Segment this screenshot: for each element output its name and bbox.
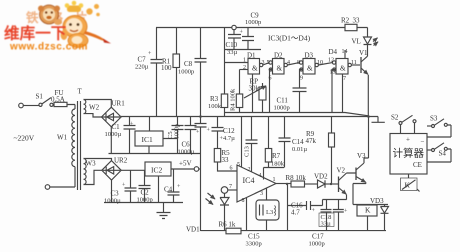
svg-text:220µ: 220µ	[135, 64, 149, 71]
svg-text:+: +	[177, 184, 181, 190]
svg-text:www.dzsc.com: www.dzsc.com	[9, 42, 88, 53]
svg-text:5: 5	[237, 162, 240, 168]
svg-text:&: &	[277, 65, 283, 73]
svg-text:+: +	[148, 51, 152, 57]
svg-text:IC3(D1～D4): IC3(D1～D4)	[268, 34, 311, 43]
svg-text:K: K	[365, 206, 371, 215]
svg-text:1: 1	[273, 177, 276, 183]
svg-text:C1: C1	[112, 123, 121, 131]
svg-text:4.7: 4.7	[291, 209, 300, 217]
svg-text:3300p: 3300p	[246, 241, 262, 248]
svg-text:1000p: 1000p	[309, 241, 325, 248]
svg-text:K: K	[405, 181, 411, 190]
svg-text:~220V: ~220V	[14, 134, 35, 143]
svg-text:+: +	[130, 122, 134, 128]
svg-text:C11: C11	[277, 97, 289, 105]
svg-text:+: +	[240, 30, 244, 36]
svg-text:1000p: 1000p	[274, 105, 290, 112]
svg-text:100: 100	[161, 64, 172, 72]
svg-text:C15: C15	[248, 233, 260, 241]
svg-text:1: 1	[243, 58, 246, 64]
svg-text:C5: C5	[167, 131, 174, 139]
svg-text:UR1: UR1	[112, 100, 126, 108]
svg-text:3: 3	[260, 191, 263, 197]
svg-text:+: +	[312, 208, 316, 214]
svg-text:D3: D3	[305, 52, 314, 60]
svg-text:4: 4	[259, 173, 262, 179]
svg-text:5: 5	[267, 60, 270, 66]
svg-text:S4: S4	[439, 150, 447, 158]
svg-text:7: 7	[229, 184, 232, 190]
svg-text:1000p: 1000p	[245, 19, 261, 26]
svg-text:VD3: VD3	[370, 197, 384, 205]
svg-text:V3: V3	[357, 152, 366, 160]
svg-text:30k: 30k	[249, 85, 260, 93]
svg-text:维库一下: 维库一下	[4, 24, 66, 43]
svg-text:D1: D1	[247, 52, 256, 60]
svg-text:&: &	[307, 65, 313, 73]
svg-text:D4: D4	[329, 48, 338, 56]
svg-text:4: 4	[287, 60, 290, 66]
svg-text:9: 9	[300, 76, 303, 82]
svg-text:7: 7	[343, 76, 346, 82]
svg-text:C2: C2	[141, 189, 150, 197]
svg-text:R6 1k: R6 1k	[219, 221, 236, 229]
svg-text:8: 8	[242, 198, 245, 204]
svg-text:UR2: UR2	[114, 157, 128, 165]
svg-text:计算器: 计算器	[393, 147, 425, 160]
svg-text:33µ: 33µ	[321, 221, 332, 228]
svg-text:C6: C6	[182, 141, 191, 149]
svg-text:2: 2	[243, 65, 246, 71]
svg-text:R3: R3	[210, 95, 219, 103]
svg-text:12: 12	[328, 58, 334, 64]
svg-text:IC1: IC1	[142, 135, 154, 144]
svg-text:3: 3	[262, 60, 265, 66]
svg-text:+: +	[207, 128, 211, 134]
svg-text:R2: R2	[341, 17, 350, 25]
svg-text:+: +	[196, 130, 200, 136]
svg-text:VD2: VD2	[314, 173, 328, 181]
svg-text:13: 13	[330, 70, 336, 76]
svg-text:1000µ: 1000µ	[104, 198, 121, 205]
svg-text:C13: C13	[244, 146, 251, 157]
svg-text:+: +	[344, 209, 348, 215]
svg-text:8: 8	[297, 60, 300, 66]
svg-text:C10: C10	[226, 41, 238, 49]
svg-text:14: 14	[342, 49, 348, 55]
svg-text:C3: C3	[111, 190, 120, 198]
svg-text:1000p: 1000p	[178, 69, 194, 76]
svg-text:6: 6	[230, 166, 233, 172]
svg-text:0.01µ: 0.01µ	[292, 146, 307, 153]
svg-text:&: &	[340, 65, 346, 73]
svg-text:33: 33	[222, 156, 230, 164]
svg-text:S3: S3	[430, 115, 438, 123]
svg-text:180k: 180k	[271, 161, 285, 168]
svg-text:S2: S2	[391, 114, 399, 122]
svg-text:R4 100k: R4 100k	[230, 88, 237, 111]
svg-text:IC4: IC4	[243, 176, 255, 185]
svg-text:R8 10k: R8 10k	[286, 174, 307, 182]
svg-text:V1: V1	[359, 49, 368, 57]
svg-text:W1: W1	[57, 134, 68, 142]
svg-text:47k: 47k	[306, 137, 317, 145]
svg-text:R7: R7	[272, 152, 281, 160]
svg-text:VL: VL	[352, 38, 361, 46]
svg-text:2: 2	[248, 167, 251, 173]
svg-text:6: 6	[269, 76, 272, 82]
svg-text:C17: C17	[312, 233, 324, 241]
svg-text:1000p: 1000p	[137, 197, 153, 204]
svg-text:S1: S1	[36, 93, 44, 101]
svg-text:100k: 100k	[208, 103, 222, 110]
svg-text:10: 10	[317, 60, 323, 66]
svg-text:1000p: 1000p	[175, 124, 181, 139]
svg-text:VD1: VD1	[186, 226, 200, 234]
svg-text:1000µ: 1000µ	[105, 131, 122, 138]
svg-text:−: −	[421, 138, 425, 146]
svg-text:1000µ: 1000µ	[178, 149, 195, 156]
svg-text:C12: C12	[223, 127, 235, 135]
svg-text:IC2: IC2	[151, 166, 163, 175]
svg-text:&: &	[252, 65, 258, 73]
svg-text:W3: W3	[86, 160, 97, 168]
svg-text:+5V: +5V	[179, 160, 192, 168]
svg-text:T: T	[78, 88, 83, 96]
svg-text:4.7µ: 4.7µ	[223, 135, 235, 142]
svg-text:0.5A: 0.5A	[51, 96, 65, 104]
svg-text:W2: W2	[89, 104, 100, 112]
svg-text:C4: C4	[164, 186, 173, 194]
svg-text:33µ: 33µ	[227, 49, 238, 56]
svg-text:L3: L3	[266, 209, 273, 216]
svg-text:C8: C8	[184, 60, 193, 68]
svg-text:C7: C7	[138, 56, 147, 64]
svg-text:C14: C14	[292, 138, 304, 146]
svg-text:11: 11	[351, 60, 357, 66]
svg-text:D2: D2	[274, 52, 283, 60]
svg-text:V2: V2	[337, 167, 346, 175]
svg-text:CE: CE	[413, 161, 422, 169]
svg-text:+: +	[406, 136, 410, 144]
svg-text:33: 33	[353, 17, 361, 25]
